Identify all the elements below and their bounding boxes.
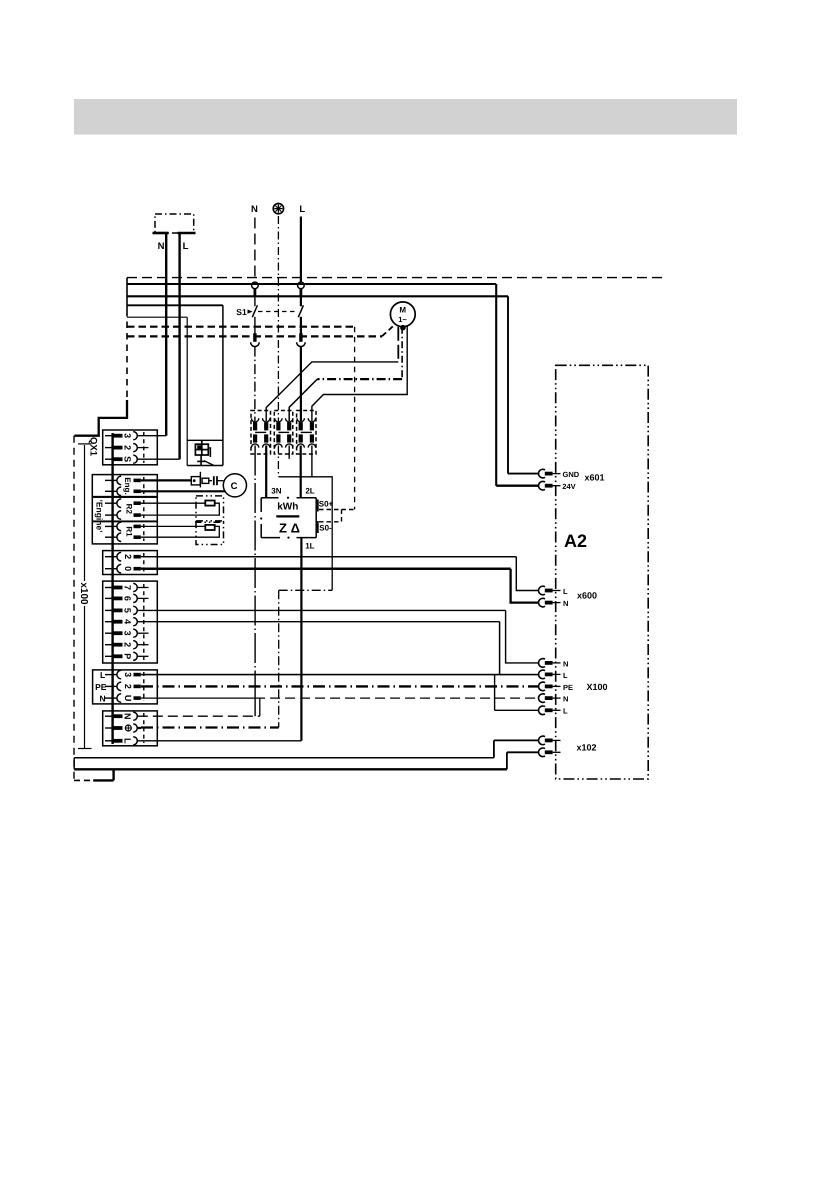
connector pin R1b — [105, 533, 141, 542]
svg-text:S1: S1 — [236, 307, 247, 317]
svg-text:3: 3 — [123, 433, 133, 438]
wire GND to pin — [508, 473, 539, 475]
svg-text:N: N — [100, 693, 106, 703]
wire bottom stub vertical — [112, 769, 114, 780]
svg-text:GND: GND — [563, 470, 580, 479]
switch S1 blade L — [298, 305, 303, 317]
svg-text:L: L — [123, 738, 133, 744]
svg-text:M: M — [399, 305, 406, 314]
connector pin 6 — [105, 594, 149, 602]
pin X102.1 — [539, 736, 561, 745]
svg-text:x100: x100 — [78, 582, 89, 605]
wire motor lead 2 — [401, 327, 403, 379]
suppressor unit — [191, 472, 212, 488]
svg-text:4: 4 — [123, 619, 133, 624]
svg-text:L: L — [100, 670, 105, 680]
svg-text:0: 0 — [123, 566, 133, 571]
svg-text:2: 2 — [123, 642, 133, 647]
svg-text:L: L — [563, 671, 568, 680]
wire stub N to bus — [253, 289, 256, 297]
connector Engine C R1 — [92, 522, 157, 544]
resistor R2 box — [196, 496, 224, 522]
connector pin 4 — [105, 618, 500, 626]
connector pin PE2 — [105, 682, 141, 691]
connector pin 2 — [105, 552, 516, 561]
connector pin 5 — [105, 606, 506, 614]
wire contact link — [301, 431, 312, 433]
svg-text:6: 6 — [123, 596, 133, 601]
wire PE supply vertical — [277, 216, 279, 421]
wire bottom bus 1 — [74, 757, 494, 759]
svg-text:2: 2 — [123, 445, 133, 450]
resistor R1 — [205, 525, 214, 530]
connector Engine pin Eng1 — [105, 476, 150, 485]
terminal bar S0+ — [317, 500, 319, 512]
svg-text:3N: 3N — [271, 487, 281, 496]
svg-text:2L: 2L — [305, 487, 314, 496]
wire 3N to kWh — [265, 446, 267, 499]
wire bus to heater right — [127, 304, 223, 306]
wire motor lead1 staircase — [266, 362, 398, 421]
wire L below switch — [300, 317, 302, 334]
connector X2 — [103, 551, 158, 575]
pin GND X601.1 — [539, 469, 561, 478]
wire stub K2b — [288, 446, 290, 459]
wire plug N down — [165, 233, 167, 436]
connector pin Ne — [105, 712, 137, 720]
svg-text:kWh: kWh — [277, 502, 298, 513]
svg-text:24V: 24V — [562, 482, 575, 491]
header gray bar — [74, 99, 737, 135]
dimension X100 — [78, 444, 92, 749]
svg-text:1L: 1L — [305, 542, 314, 551]
svg-text:U: U — [123, 695, 133, 702]
connector pin 0 — [105, 564, 511, 573]
wire S1 coupling dashed — [258, 311, 298, 313]
wire dashed control bus S0 — [127, 326, 355, 328]
svg-text:A2: A2 — [564, 531, 587, 551]
connector pin R1a — [105, 522, 141, 531]
wire bottom thick stub — [93, 779, 113, 781]
contact K2a — [275, 418, 282, 447]
svg-text:QX1: QX1 — [88, 437, 99, 457]
connector QX1 pin 2 — [105, 444, 149, 452]
wire Eng1 to suppressor — [150, 479, 191, 481]
wire N dashed from earth block — [138, 715, 260, 717]
wire PE below contact — [277, 446, 279, 477]
mains plug X — [153, 214, 196, 233]
wire 2L to kWh — [300, 446, 302, 499]
wire PE down to earth block — [278, 590, 280, 727]
contact K3a — [297, 418, 304, 447]
wire PE jog left — [279, 589, 333, 591]
pin N X600.2 — [539, 598, 561, 607]
wire X102 pin1 — [494, 739, 539, 741]
wire N bus dashed — [255, 697, 539, 699]
wire contact link — [255, 431, 266, 433]
connector Xearth — [103, 711, 158, 746]
wire L supply vertical — [300, 217, 302, 307]
connector QX1 pin 3 — [105, 432, 166, 440]
connector block K1 — [251, 411, 271, 455]
svg-text:X100: X100 — [586, 682, 607, 692]
connector block K2 — [274, 411, 293, 455]
svg-text:N: N — [563, 599, 568, 608]
module A2 — [556, 365, 649, 779]
capacitor C1 — [214, 476, 224, 485]
wire bottom bus 2 — [74, 768, 507, 770]
svg-text:Eng.: Eng. — [123, 477, 132, 494]
svg-text:N: N — [563, 695, 568, 704]
connector pin NU — [105, 694, 255, 703]
wire motor lead 3 staircase — [312, 326, 407, 421]
wire N below terminal — [254, 289, 256, 307]
wire N vertical lower — [254, 446, 256, 698]
wire left rail — [126, 278, 128, 310]
pin N X100.1 — [539, 659, 561, 668]
node terminal N — [252, 282, 259, 289]
wire PE bus dashdot — [141, 685, 539, 687]
wire S0+ dashed — [319, 509, 355, 511]
wire dashed S0 vertical — [354, 327, 356, 510]
wire X600 N staircase — [511, 569, 539, 603]
svg-text:L: L — [299, 204, 305, 215]
svg-text:PE: PE — [563, 683, 573, 692]
node terminal L — [298, 282, 305, 289]
kWh meter Z — [260, 497, 316, 539]
svg-text:2: 2 — [123, 554, 133, 559]
wire earth dashdot — [141, 726, 279, 728]
connector pin R2b — [105, 511, 141, 520]
svg-text:3: 3 — [123, 631, 133, 636]
wire Eng2 to C — [150, 490, 225, 492]
resistor R2 — [205, 501, 214, 506]
wire X102 pin2 vertical — [506, 752, 508, 769]
wire heater left vertical — [186, 317, 188, 465]
wire dashed control bus motor — [127, 335, 382, 337]
wire motor lead2 dashdot — [317, 378, 402, 380]
wire to resistor R2 — [141, 502, 206, 504]
svg-text:N: N — [251, 204, 258, 215]
wire X100 L drop — [499, 622, 501, 675]
connector XPE — [93, 670, 158, 704]
wire GND vertical — [507, 296, 509, 473]
wire X600 L bus — [143, 556, 516, 558]
wire bus to heater left — [127, 316, 187, 318]
wire motor lead 1 — [397, 327, 399, 362]
connector pin 3 — [105, 629, 149, 637]
svg-text:S0+: S0+ — [319, 500, 334, 509]
wire X102 pin2 — [507, 751, 539, 753]
connector pin 7 — [105, 583, 149, 591]
wire X600 L staircase — [516, 557, 539, 591]
svg-text:x600: x600 — [577, 591, 597, 601]
connector pin L3 — [105, 670, 539, 679]
wire PE jog right — [278, 477, 332, 591]
pin 24V X601.2 — [539, 481, 561, 490]
wire X100 L vertical — [494, 675, 496, 711]
wire X100 N staircase — [506, 610, 539, 663]
connector X7P — [103, 581, 158, 663]
connector QX1 pin S — [105, 455, 180, 463]
wire return resistor R2 — [141, 503, 220, 515]
svg-text:P: P — [123, 653, 133, 659]
connector pin-socket N — [251, 333, 260, 346]
terminal bar S0- — [317, 521, 319, 533]
pin X102.2 — [539, 748, 561, 757]
svg-text:5: 5 — [123, 608, 133, 613]
wire bottom dashed stub — [74, 779, 93, 781]
svg-text:3: 3 — [123, 672, 133, 677]
svg-text:Z Δ: Z Δ — [279, 521, 300, 536]
wire to resistor R1 — [141, 525, 206, 527]
motor M1 — [390, 302, 415, 331]
wire L to contact — [300, 347, 302, 421]
contact K1b — [263, 418, 270, 447]
svg-text:2: 2 — [123, 684, 133, 689]
wire X102 pin1 vertical — [493, 740, 495, 757]
wire K3b to PE jog — [311, 446, 313, 477]
wire motor lead2 diagonal — [289, 379, 317, 421]
connector pin 2 — [105, 641, 149, 649]
contact K1a — [251, 418, 258, 447]
pin L X600.1 — [539, 586, 561, 595]
heater thermal unit E1 — [187, 440, 223, 465]
svg-text:’Engine’: ’Engine’ — [95, 499, 105, 532]
resistor R1 box — [196, 521, 224, 545]
wire 24V vertical — [495, 284, 497, 486]
svg-text:L: L — [563, 707, 568, 716]
pin L X100.2 — [539, 670, 561, 679]
connector QX1 — [103, 430, 158, 465]
connector Engine B R2 — [92, 497, 157, 521]
wire dashed to motor — [382, 326, 394, 336]
wire return resistor R1 — [141, 526, 220, 537]
svg-text:N: N — [123, 713, 133, 720]
svg-text:R2: R2 — [125, 504, 134, 515]
connector pin-socket L — [297, 333, 306, 346]
svg-text:N: N — [563, 659, 568, 668]
wire S0- dashed — [319, 521, 342, 523]
wire 24V to pin — [496, 485, 539, 487]
switch S1 blade N — [252, 305, 257, 317]
wire heater right vertical — [222, 305, 224, 465]
wire X100 L bottom — [495, 709, 539, 711]
svg-text:x102: x102 — [576, 743, 596, 753]
wire N below switch — [254, 317, 256, 334]
wire N join jog — [254, 698, 256, 716]
wire plug L down — [178, 233, 180, 459]
wire 1L down — [300, 538, 302, 741]
svg-text:S0-: S0- — [319, 524, 332, 533]
svg-text:R1: R1 — [125, 526, 134, 537]
capacitor C circle — [223, 474, 246, 497]
svg-text:1~: 1~ — [398, 315, 407, 324]
wire contact link — [278, 431, 289, 433]
connector pin earth — [105, 724, 141, 732]
wire N to contact — [254, 347, 256, 421]
svg-text:L: L — [183, 241, 189, 252]
connector block K3 — [297, 411, 316, 455]
svg-text:7: 7 — [123, 585, 133, 590]
wire 1L to earth block — [137, 740, 302, 742]
wire bus to 24V — [127, 283, 496, 285]
svg-text:x601: x601 — [584, 473, 604, 483]
svg-text:L: L — [563, 587, 568, 596]
svg-text:S: S — [123, 456, 133, 462]
wire bottom left link — [73, 758, 75, 770]
svg-text:N: N — [158, 241, 165, 252]
pin PE X100.3 — [539, 682, 561, 691]
pin L X100.5 — [539, 706, 561, 715]
wire X100 L bus — [141, 674, 539, 676]
contact K3b — [308, 418, 315, 447]
wire stub L to bus — [299, 289, 302, 297]
wire N supply vertical — [254, 218, 256, 283]
switch S1 arrow — [248, 310, 253, 314]
wire N bus jog — [259, 698, 261, 716]
connector pin Le — [105, 737, 138, 745]
connector Engine pin Eng2 — [105, 487, 150, 496]
pin N X100.4 — [539, 694, 561, 703]
connector Engine A — [92, 475, 157, 497]
connector pin R2a — [105, 499, 141, 508]
thermal contact — [197, 455, 214, 466]
contact K2b — [286, 418, 293, 447]
wire S0 link dashed — [341, 510, 343, 522]
wire left rail step — [74, 400, 127, 436]
connector pin P — [105, 652, 149, 660]
wire left dashed rail — [73, 436, 75, 781]
wire connector chain vertical — [111, 433, 113, 744]
svg-text:C: C — [231, 481, 238, 492]
wire bus to GND — [127, 295, 508, 297]
earth terminal symbol — [273, 203, 283, 213]
wire dashed bus top — [127, 277, 667, 279]
wire X600 N bus — [143, 568, 511, 570]
